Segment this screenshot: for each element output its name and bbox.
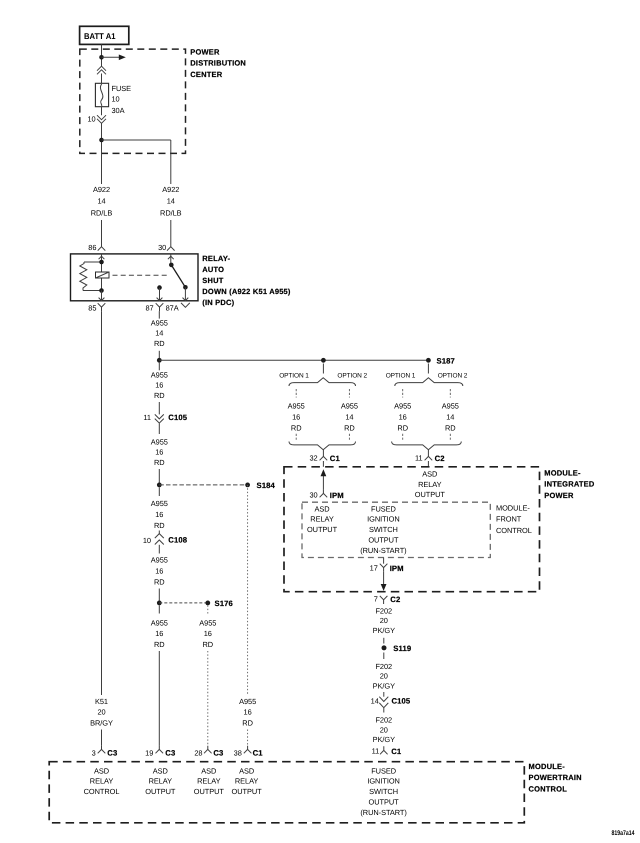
svg-text:MODULE-: MODULE- bbox=[544, 468, 581, 477]
wire S187 to option group 1 bbox=[322, 364, 324, 374]
connector C1 pin 32 bbox=[309, 450, 340, 463]
svg-text:RELAY: RELAY bbox=[310, 515, 334, 524]
wire below S187 bbox=[158, 363, 160, 371]
splice S187 bbox=[157, 356, 455, 365]
svg-text:BATT A1: BATT A1 bbox=[84, 31, 116, 41]
option 1 lower stub bbox=[295, 434, 297, 441]
wire pin 87 down bbox=[158, 311, 160, 318]
svg-text:C3: C3 bbox=[165, 748, 175, 757]
svg-text:16: 16 bbox=[204, 629, 212, 638]
svg-text:A955: A955 bbox=[151, 555, 168, 564]
relay coil core symbol bbox=[96, 272, 110, 278]
svg-text:C1: C1 bbox=[253, 748, 264, 757]
fuse FUSE 10 30A bbox=[95, 83, 131, 115]
option 1 branch stub (group 2) bbox=[402, 389, 404, 398]
svg-text:RELAY: RELAY bbox=[197, 777, 221, 786]
option 1 branch stub bbox=[295, 389, 297, 398]
node: switch pivot bbox=[169, 263, 174, 268]
svg-text:11: 11 bbox=[143, 413, 151, 422]
node: 87 contact bbox=[157, 285, 162, 290]
svg-text:14: 14 bbox=[167, 197, 175, 206]
svg-text:RD: RD bbox=[242, 718, 253, 727]
svg-text:16: 16 bbox=[155, 566, 163, 575]
option 2 lower stub bbox=[348, 434, 350, 441]
svg-text:DISTRIBUTION: DISTRIBUTION bbox=[190, 59, 246, 68]
wire S187 to option group 2 bbox=[427, 364, 429, 374]
wire to C108 bbox=[158, 531, 160, 534]
wire label A955 16 RD (option 1) bbox=[288, 402, 305, 433]
node: ASD relay output (front control) bbox=[307, 504, 338, 534]
wire stub below S119 bbox=[383, 653, 385, 660]
svg-text:86: 86 bbox=[88, 243, 96, 252]
svg-text:16: 16 bbox=[155, 381, 163, 390]
svg-text:SHUT: SHUT bbox=[202, 276, 223, 285]
connector C105 pin 14 bbox=[371, 697, 411, 713]
svg-text:3: 3 bbox=[92, 748, 96, 757]
wire below S184 bbox=[158, 487, 160, 496]
node: ASD relay output (pin 19) bbox=[145, 766, 176, 796]
svg-text:MODULE-: MODULE- bbox=[496, 503, 530, 512]
svg-text:20: 20 bbox=[380, 616, 388, 625]
svg-text:IPM: IPM bbox=[330, 491, 344, 500]
svg-text:IPM: IPM bbox=[390, 564, 404, 573]
wire junction to right branch bbox=[102, 140, 171, 153]
svg-text:F202: F202 bbox=[375, 662, 392, 671]
svg-text:16: 16 bbox=[292, 413, 300, 422]
svg-text:20: 20 bbox=[380, 672, 388, 681]
svg-text:A955: A955 bbox=[239, 697, 256, 706]
svg-text:F202: F202 bbox=[375, 606, 392, 615]
connector C3 pin 28 bbox=[194, 746, 223, 758]
wire to PCM pin 38 bbox=[247, 730, 249, 746]
node: ASD relay output label (C2) bbox=[415, 470, 446, 500]
svg-text:30: 30 bbox=[309, 491, 317, 500]
svg-text:RD: RD bbox=[154, 458, 165, 467]
svg-text:A955: A955 bbox=[341, 402, 358, 411]
svg-text:POWER: POWER bbox=[190, 48, 220, 57]
svg-text:RD: RD bbox=[397, 423, 408, 432]
node: coil top bbox=[99, 260, 104, 265]
svg-text:RD: RD bbox=[154, 391, 165, 400]
wire S176 branch to PCM pin 28 bbox=[207, 651, 209, 746]
svg-text:RELAY: RELAY bbox=[418, 480, 442, 489]
svg-text:AUTO: AUTO bbox=[202, 265, 224, 274]
svg-text:FUSED: FUSED bbox=[371, 504, 396, 513]
module-powertrain control box bbox=[49, 762, 582, 823]
svg-text:A922: A922 bbox=[162, 185, 179, 194]
wire label A922 14 RD/LB (right) bbox=[160, 185, 182, 217]
wire stub to splice bbox=[158, 351, 160, 358]
svg-text:CONTROL: CONTROL bbox=[496, 526, 532, 535]
wire S176 to PCM pin 19 bbox=[158, 651, 160, 746]
svg-text:20: 20 bbox=[380, 725, 388, 734]
svg-text:A955: A955 bbox=[151, 371, 168, 380]
svg-text:OPTION 2: OPTION 2 bbox=[438, 373, 468, 380]
wire label A955 16 RD bbox=[151, 499, 168, 530]
wire stub to S119 bbox=[383, 638, 385, 644]
svg-text:C1: C1 bbox=[330, 454, 341, 463]
wire label A955 16 RD (branch) bbox=[239, 697, 256, 727]
svg-text:16: 16 bbox=[155, 448, 163, 457]
module-front control box bbox=[302, 502, 532, 557]
wire fuse to connector bbox=[101, 107, 103, 116]
wire coil to pin 85 bbox=[101, 291, 103, 301]
svg-text:PK/GY: PK/GY bbox=[373, 735, 395, 744]
svg-text:IGNITION: IGNITION bbox=[367, 515, 399, 524]
wire label A922 14 RD/LB (left) bbox=[91, 185, 113, 217]
relay coil branch wire bbox=[83, 254, 102, 291]
pin 87A connector bbox=[166, 298, 190, 313]
svg-text:SWITCH: SWITCH bbox=[369, 525, 398, 534]
svg-text:RELAY: RELAY bbox=[235, 777, 259, 786]
wire label A955 16 RD bbox=[151, 555, 168, 586]
wire K51 to PCM pin 3 bbox=[101, 730, 103, 746]
svg-text:11: 11 bbox=[372, 747, 380, 756]
svg-text:CONTROL: CONTROL bbox=[529, 784, 568, 793]
drawing number bbox=[612, 830, 635, 837]
svg-text:RELAY-: RELAY- bbox=[202, 254, 230, 263]
pin 30 connector bbox=[158, 243, 175, 259]
svg-text:A955: A955 bbox=[151, 319, 168, 328]
relay K1 auto shut down box bbox=[71, 254, 199, 301]
arrow: feed to other circuits bbox=[102, 55, 126, 61]
wire stubs below S176 bbox=[159, 605, 208, 613]
connector C105 pin 11 bbox=[143, 413, 187, 434]
svg-text:RD: RD bbox=[344, 423, 355, 432]
pin 10 label bbox=[87, 114, 95, 123]
svg-text:S184: S184 bbox=[257, 481, 276, 490]
svg-text:INTEGRATED: INTEGRATED bbox=[544, 480, 595, 489]
option group 2 opening brace bbox=[386, 373, 468, 386]
option group 2 closing brace bbox=[392, 442, 462, 450]
option 2 branch stub (group 2) bbox=[449, 389, 451, 398]
node: ASD relay output (pin 28) bbox=[194, 766, 225, 796]
svg-text:A955: A955 bbox=[394, 402, 411, 411]
svg-text:A955: A955 bbox=[151, 499, 168, 508]
connector C2 pin 7 bbox=[374, 595, 401, 604]
svg-text:14: 14 bbox=[345, 413, 353, 422]
node: 87A contact bbox=[183, 285, 188, 290]
svg-text:K51: K51 bbox=[95, 697, 108, 706]
svg-text:ASD: ASD bbox=[153, 766, 168, 775]
svg-text:ASD: ASD bbox=[422, 470, 437, 479]
svg-text:RELAY: RELAY bbox=[90, 777, 114, 786]
svg-text:FUSE: FUSE bbox=[112, 84, 132, 93]
option 2 branch stub bbox=[348, 389, 350, 398]
svg-text:C3: C3 bbox=[107, 748, 117, 757]
node: PDC output junction bbox=[99, 138, 104, 143]
svg-text:SWITCH: SWITCH bbox=[369, 787, 398, 796]
node: battery feed junction bbox=[99, 55, 104, 60]
node: coil bottom bbox=[99, 288, 104, 293]
option 1 lower stub (group 2) bbox=[402, 434, 404, 441]
wire C2 into IPM bbox=[427, 461, 429, 467]
svg-text:RD/LB: RD/LB bbox=[91, 208, 113, 217]
wire label F202 20 PK/GY bbox=[373, 662, 395, 690]
wire chevrons to fuse bbox=[101, 74, 103, 84]
svg-text:RD: RD bbox=[154, 577, 165, 586]
wire label A955 14 RD bbox=[151, 319, 168, 348]
connector C1 pin 11 bbox=[372, 746, 402, 756]
wire label F202 20 PK/GY bbox=[373, 606, 395, 634]
svg-text:16: 16 bbox=[244, 708, 252, 717]
svg-text:16: 16 bbox=[155, 629, 163, 638]
svg-text:C105: C105 bbox=[392, 697, 411, 706]
splice S184 bbox=[157, 481, 276, 490]
wire to PDC bottom junction bbox=[101, 124, 103, 154]
svg-text:RD: RD bbox=[291, 423, 302, 432]
svg-text:C3: C3 bbox=[213, 748, 223, 757]
wire label A955 16 RD bbox=[151, 371, 168, 400]
wire to S176 bbox=[158, 589, 160, 601]
relay coil winding (zigzag) bbox=[80, 262, 87, 291]
splice S119 bbox=[382, 644, 412, 653]
connector C108 pin 10 bbox=[143, 534, 188, 554]
wire to C105 bbox=[383, 692, 385, 697]
wire A922 left below PDC bbox=[101, 153, 103, 184]
svg-text:RD: RD bbox=[203, 640, 214, 649]
svg-text:17: 17 bbox=[370, 564, 378, 573]
connector chevrons above fuse bbox=[97, 66, 106, 74]
svg-text:A955: A955 bbox=[151, 619, 168, 628]
wire to relay pin 86 bbox=[101, 220, 103, 247]
svg-text:A955: A955 bbox=[199, 619, 216, 628]
svg-text:819a7a14: 819a7a14 bbox=[612, 830, 635, 837]
connector C2 pin 11 bbox=[415, 450, 445, 463]
svg-text:(RUN-START): (RUN-START) bbox=[360, 808, 406, 817]
mechanical link (dashed) bbox=[113, 274, 168, 276]
connector IPM pin 17 bbox=[370, 558, 404, 573]
svg-text:30: 30 bbox=[158, 243, 166, 252]
svg-text:16: 16 bbox=[155, 510, 163, 519]
wire C1 into IPM bbox=[322, 461, 324, 467]
svg-text:A922: A922 bbox=[93, 185, 110, 194]
svg-text:32: 32 bbox=[309, 454, 317, 463]
module-integrated power box bbox=[284, 467, 595, 592]
wire label A955 16 RD bbox=[151, 438, 168, 467]
svg-text:28: 28 bbox=[194, 748, 202, 757]
svg-text:10: 10 bbox=[143, 536, 151, 545]
svg-text:C1: C1 bbox=[391, 747, 402, 756]
wire label A955 14 RD (option 2) bbox=[341, 402, 358, 433]
switch common from pin 30 bbox=[170, 254, 172, 265]
svg-text:OPTION 1: OPTION 1 bbox=[279, 373, 309, 380]
svg-text:16: 16 bbox=[399, 413, 407, 422]
svg-text:PK/GY: PK/GY bbox=[373, 626, 395, 635]
svg-text:S176: S176 bbox=[215, 599, 233, 608]
svg-text:20: 20 bbox=[97, 708, 105, 717]
node: fused ignition switch output (PCM) bbox=[360, 766, 406, 816]
svg-text:ASD: ASD bbox=[94, 766, 109, 775]
relay label bbox=[202, 254, 291, 307]
wire A922 right below PDC bbox=[170, 153, 172, 184]
svg-text:RD: RD bbox=[154, 521, 165, 530]
svg-text:OPTION 1: OPTION 1 bbox=[386, 373, 416, 380]
svg-text:RD: RD bbox=[154, 640, 165, 649]
svg-text:11: 11 bbox=[415, 454, 423, 463]
svg-text:RD: RD bbox=[445, 423, 456, 432]
svg-text:10: 10 bbox=[112, 95, 120, 104]
wire pin 85 down (K51 circuit) bbox=[101, 311, 103, 695]
pin 87 connector bbox=[145, 298, 163, 313]
svg-text:85: 85 bbox=[88, 304, 96, 313]
svg-text:OUTPUT: OUTPUT bbox=[307, 525, 338, 534]
option group 1 closing brace bbox=[289, 442, 356, 450]
svg-text:ASD: ASD bbox=[201, 766, 216, 775]
pin 85 connector bbox=[88, 298, 105, 313]
splice S176 bbox=[157, 599, 233, 608]
svg-text:POWER: POWER bbox=[544, 491, 574, 500]
connector chevrons below fuse (pin 10) bbox=[97, 115, 106, 123]
svg-text:FRONT: FRONT bbox=[496, 514, 522, 523]
svg-text:RD: RD bbox=[154, 339, 165, 348]
switch blade bbox=[171, 265, 185, 287]
connector C3 pin 19 bbox=[145, 746, 175, 758]
svg-text:RELAY: RELAY bbox=[149, 777, 173, 786]
battery feed BATT A1 bbox=[80, 26, 129, 44]
option group 1 opening brace bbox=[279, 373, 367, 386]
svg-text:ASD: ASD bbox=[239, 766, 254, 775]
svg-text:OUTPUT: OUTPUT bbox=[368, 535, 399, 544]
svg-text:OPTION 2: OPTION 2 bbox=[337, 373, 367, 380]
node: ASD relay output (pin 38) bbox=[232, 766, 263, 796]
svg-text:A955: A955 bbox=[442, 402, 459, 411]
power distribution center box bbox=[80, 48, 246, 154]
wire label A955 16 RD (group 2 option 1) bbox=[394, 402, 411, 433]
wire label K51 20 BR/GY bbox=[90, 697, 113, 727]
svg-text:RD/LB: RD/LB bbox=[160, 208, 182, 217]
svg-text:CENTER: CENTER bbox=[190, 70, 222, 79]
svg-text:C2: C2 bbox=[390, 595, 400, 604]
wire from BATT A1 into PDC bbox=[101, 44, 103, 66]
wire to S184 bbox=[158, 469, 160, 485]
svg-text:MODULE-: MODULE- bbox=[529, 762, 566, 771]
wire S184 branch down to C1 pin 38 bbox=[247, 485, 249, 695]
svg-text:C108: C108 bbox=[168, 536, 187, 545]
svg-text:OUTPUT: OUTPUT bbox=[369, 797, 400, 806]
svg-text:IGNITION: IGNITION bbox=[367, 777, 399, 786]
connector IPM pin 30 bbox=[309, 489, 343, 500]
svg-text:38: 38 bbox=[234, 748, 242, 757]
option 2 lower stub (group 2) bbox=[449, 434, 451, 441]
svg-text:FUSED: FUSED bbox=[371, 766, 396, 775]
wire 87A contact to pin bbox=[184, 287, 186, 301]
svg-text:ASD: ASD bbox=[314, 504, 329, 513]
node: fused ignition switch output (front control) bbox=[360, 504, 406, 554]
wire 87 contact to pin bbox=[159, 288, 161, 301]
svg-text:A955: A955 bbox=[151, 438, 168, 447]
svg-text:PK/GY: PK/GY bbox=[373, 681, 395, 690]
svg-text:14: 14 bbox=[371, 697, 379, 706]
connector C3 pin 3 bbox=[92, 746, 118, 758]
svg-text:OUTPUT: OUTPUT bbox=[232, 787, 263, 796]
svg-text:(RUN-START): (RUN-START) bbox=[360, 546, 406, 555]
wire label A955 16 RD (col3) bbox=[199, 619, 216, 649]
pin 86 connector bbox=[88, 243, 105, 259]
wire arrow up to C1 bbox=[321, 469, 327, 489]
svg-text:OUTPUT: OUTPUT bbox=[145, 787, 176, 796]
svg-text:S187: S187 bbox=[437, 356, 455, 365]
wire label A955 14 RD (group 2 option 2) bbox=[442, 402, 459, 433]
svg-text:A955: A955 bbox=[288, 402, 305, 411]
svg-text:(IN PDC): (IN PDC) bbox=[202, 298, 234, 307]
wire label A955 16 RD (col2) bbox=[151, 619, 168, 649]
svg-text:F202: F202 bbox=[375, 716, 392, 725]
svg-text:7: 7 bbox=[374, 595, 378, 604]
svg-text:BR/GY: BR/GY bbox=[90, 718, 113, 727]
wire to C105 bbox=[158, 402, 160, 414]
svg-text:14: 14 bbox=[155, 329, 163, 338]
svg-text:14: 14 bbox=[446, 413, 454, 422]
svg-text:OUTPUT: OUTPUT bbox=[194, 787, 225, 796]
connector C1 pin 38 bbox=[234, 746, 264, 758]
svg-text:DOWN (A922 K51 A955): DOWN (A922 K51 A955) bbox=[202, 287, 291, 296]
wire label F202 20 PK/GY bbox=[373, 716, 395, 744]
svg-text:19: 19 bbox=[145, 748, 153, 757]
svg-text:POWERTRAIN: POWERTRAIN bbox=[529, 773, 582, 782]
svg-text:C2: C2 bbox=[435, 454, 445, 463]
svg-text:OUTPUT: OUTPUT bbox=[415, 490, 446, 499]
svg-text:S119: S119 bbox=[393, 644, 411, 653]
wire to relay pin 30 bbox=[170, 220, 172, 247]
svg-text:14: 14 bbox=[97, 197, 105, 206]
svg-text:87: 87 bbox=[145, 304, 153, 313]
svg-text:10: 10 bbox=[87, 114, 95, 123]
node: ASD relay control (pin 3) bbox=[84, 766, 120, 796]
svg-text:C105: C105 bbox=[168, 413, 187, 422]
svg-text:87A: 87A bbox=[166, 304, 179, 313]
svg-text:CONTROL: CONTROL bbox=[84, 787, 120, 796]
svg-text:30A: 30A bbox=[112, 106, 125, 115]
wire arrow down to C2 out bbox=[381, 572, 387, 591]
